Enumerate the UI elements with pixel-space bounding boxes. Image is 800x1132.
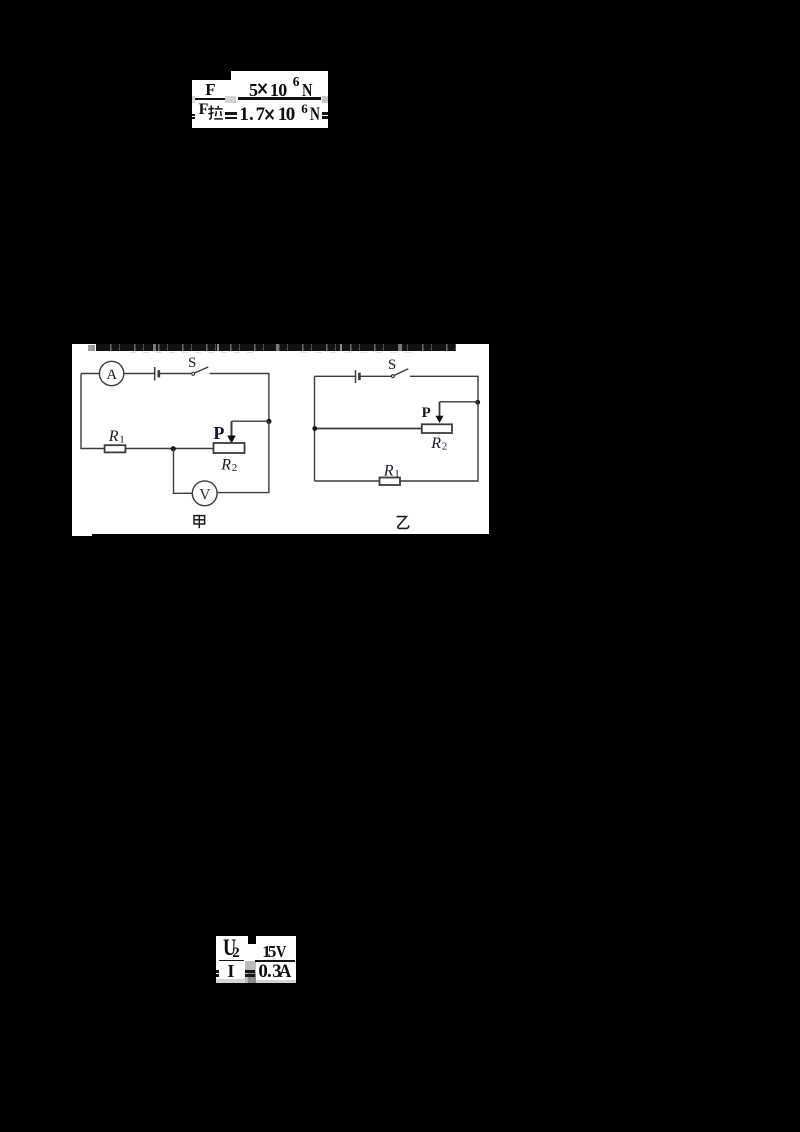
battery B2 short thick plate [358, 372, 361, 379]
slider arm P1 arrow shaft [231, 421, 233, 436]
switch S2 pivot [391, 374, 394, 377]
wire: junction down and right to voltmeter [174, 448, 193, 493]
junction node left middle [312, 426, 317, 431]
left partial equals [216, 970, 219, 973]
resistor R1b box [380, 477, 401, 485]
voltmeter V1 [192, 480, 217, 505]
garbled squished text strip [96, 344, 456, 351]
U [223, 936, 236, 959]
svg-text:S: S [188, 354, 196, 370]
junction node right [475, 399, 480, 404]
wire: junction to slider arm [232, 420, 270, 422]
left white patch [216, 936, 248, 979]
white bridge between patches below notch [248, 944, 256, 961]
resistor R1 box [105, 445, 126, 452]
wire: left vertical and bottom-left to R1 [81, 373, 105, 448]
wire: top-left corner to battery [315, 375, 356, 377]
label 甲 drawn [194, 515, 205, 528]
0.3A [258, 962, 268, 981]
wire: battery to switch [159, 372, 192, 374]
gray equals artifact mid [225, 96, 236, 103]
15V [262, 943, 271, 960]
svg-text:A: A [107, 366, 118, 382]
junction node bottom [171, 446, 176, 451]
wire: voltmeter right, up to junction [217, 421, 269, 492]
wire: right vertical down to bottom corner and to R1b [400, 402, 478, 481]
wire: switch to top-right corner, down to junction [210, 373, 269, 421]
svg-text:R: R [430, 434, 441, 451]
label 乙 drawn [397, 516, 409, 528]
svg-text:2: 2 [442, 440, 448, 452]
slider arm P2 arrowhead [436, 415, 444, 422]
slider arm P1 arrowhead [227, 435, 236, 443]
svg-text:R: R [108, 427, 119, 444]
wire: middle horizontal [315, 427, 422, 429]
equals [245, 970, 255, 973]
rheostat R2 box [214, 443, 245, 453]
battery B1 short thick plate [157, 370, 160, 377]
numerator 5x10^6 N [249, 81, 258, 99]
svg-text:P: P [422, 405, 431, 421]
ammeter A1 [99, 361, 123, 385]
F denominator [199, 102, 209, 118]
svg-text:1: 1 [394, 468, 400, 480]
switch S1 blade [195, 367, 208, 373]
wire: junction to slider arm [440, 400, 478, 402]
left edge partial equals [192, 114, 195, 116]
wire: bottom-left segment [315, 480, 380, 482]
fraction bar right [238, 97, 321, 99]
wire: left vertical [314, 376, 316, 481]
battery B2 long plate [355, 370, 357, 383]
svg-text:R: R [383, 462, 394, 479]
denominator 1.7x10^6 N [239, 105, 249, 124]
F numerator [205, 81, 215, 98]
gray seam [245, 961, 257, 984]
right white patch [256, 936, 296, 980]
battery B1 long plate [154, 367, 156, 381]
left fraction bar [219, 960, 244, 962]
svg-text:S: S [388, 356, 396, 372]
svg-text:1: 1 [119, 433, 125, 445]
dark equals mid [225, 112, 238, 115]
svg-text:R: R [220, 456, 231, 473]
wire: R1 to rheostat with junction [125, 447, 213, 449]
switch S2 blade [395, 368, 409, 374]
I [227, 962, 234, 980]
拉 glyph drawn [208, 105, 223, 121]
svg-text:2: 2 [232, 462, 238, 474]
wire: battery to switch [359, 375, 391, 377]
rheostat R2b box [422, 424, 452, 433]
fraction bar left [195, 98, 225, 100]
gray lead-in square of text strip [88, 345, 95, 351]
switch S1 pivot [192, 372, 195, 375]
faint smudge line under strip [130, 352, 260, 354]
slider arm P2 arrow shaft [439, 401, 441, 416]
right fraction bar [255, 960, 295, 962]
svg-text:P: P [213, 422, 224, 442]
wire: ammeter to battery [124, 372, 155, 374]
gray sliver left edge [192, 96, 195, 103]
sub 2 [232, 946, 240, 961]
wire: top-left corner to ammeter [81, 372, 99, 374]
right edge artifacts [322, 96, 327, 103]
junction node right [266, 418, 271, 423]
svg-text:V: V [199, 486, 211, 503]
wire: switch to top-right corner, down to junction [410, 376, 478, 402]
